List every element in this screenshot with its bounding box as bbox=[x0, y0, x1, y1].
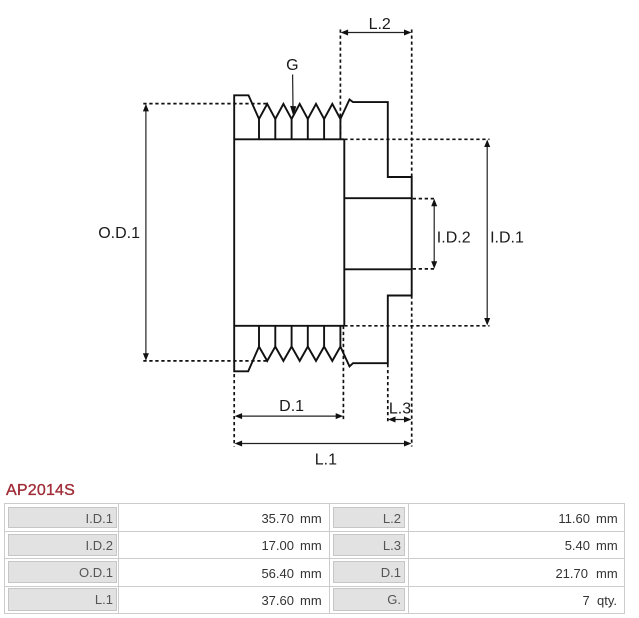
arrowhead L.2 left bbox=[341, 30, 349, 36]
svg-text:O.D.1: O.D.1 bbox=[98, 225, 140, 242]
svg-text:I.D.1: I.D.1 bbox=[490, 230, 524, 247]
body top line bbox=[234, 138, 344, 140]
dim L.3 bbox=[391, 419, 409, 421]
dim I.D.1 bbox=[486, 143, 488, 323]
arrowhead I.D.2 bottom bbox=[431, 261, 437, 269]
ext ID2 bottom bbox=[413, 268, 436, 270]
ext line left bottom bbox=[233, 374, 235, 447]
hub bottom line bbox=[344, 268, 411, 270]
arrowhead D.1 left bbox=[235, 413, 243, 419]
dim I.D.2 bbox=[433, 202, 435, 265]
svg-text:L.3: L.3 bbox=[389, 400, 411, 417]
dim D.1 bbox=[238, 415, 341, 417]
groove stems top bbox=[259, 119, 340, 139]
ext line L.3 left bbox=[387, 364, 389, 423]
arrowhead G leader bbox=[290, 106, 296, 116]
arrowhead L.3 left bbox=[388, 417, 396, 423]
leader G bbox=[292, 75, 294, 109]
arrowhead L.3 right bbox=[404, 417, 412, 423]
svg-text:G: G bbox=[286, 57, 298, 74]
groove stems bottom bbox=[259, 326, 340, 347]
svg-text:D.1: D.1 bbox=[279, 398, 304, 415]
ext line right bottom bbox=[411, 296, 413, 447]
body right face bbox=[343, 139, 345, 325]
dim L.1 bbox=[238, 443, 409, 445]
ext line L.2 left bbox=[339, 30, 341, 140]
arrowhead D.1 right bbox=[336, 413, 344, 419]
arrowhead I.D.1 top bbox=[484, 140, 490, 148]
arrowhead L.2 right bbox=[404, 30, 412, 36]
arrowhead I.D.2 top bbox=[431, 199, 437, 207]
arrowhead L.1 left bbox=[235, 441, 243, 447]
arrowhead I.D.1 bottom bbox=[484, 318, 490, 326]
arrowhead L.1 right bbox=[404, 441, 412, 447]
pulley outline bbox=[234, 95, 412, 371]
svg-text:I.D.2: I.D.2 bbox=[437, 230, 471, 247]
ext line right top bbox=[411, 30, 413, 178]
dim L.2 bbox=[344, 32, 409, 34]
ext ID1 top bbox=[344, 138, 489, 140]
svg-text:L.2: L.2 bbox=[369, 16, 391, 33]
ext line D.1 right bbox=[342, 326, 344, 420]
ext OD bottom bbox=[143, 360, 267, 362]
dim O.D.1 bbox=[145, 107, 147, 358]
arrowhead O.D.1 top bbox=[143, 104, 149, 112]
ext ID2 top bbox=[413, 198, 436, 200]
svg-text:L.1: L.1 bbox=[315, 451, 337, 468]
body bottom line bbox=[234, 325, 344, 327]
ext ID1 bottom bbox=[344, 325, 489, 327]
arrowhead O.D.1 bottom bbox=[143, 353, 149, 361]
hub top line bbox=[344, 197, 411, 199]
ext OD top bbox=[143, 103, 268, 105]
